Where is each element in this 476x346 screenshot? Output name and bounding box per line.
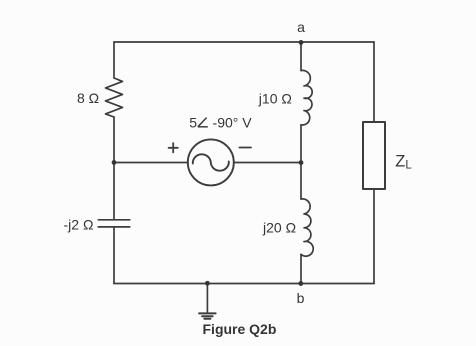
wire middle branch between coil and junction <box>300 125 302 199</box>
ground bar1 <box>199 312 216 314</box>
node a junction dot <box>299 40 304 45</box>
wire right branch lower <box>373 189 375 284</box>
wire middle horizontal left <box>114 162 188 164</box>
ground stem <box>206 284 208 313</box>
node junction dot left mid <box>112 160 117 165</box>
inductor L1 j10ohm <box>301 70 312 125</box>
inductor L2 j20ohm <box>301 199 313 256</box>
ground bar3 <box>204 318 210 320</box>
svg-text:5 -90° V: 5 -90° V <box>189 115 252 131</box>
source V1 sine wave <box>193 154 229 170</box>
svg-text:b: b <box>297 290 305 306</box>
wire right branch upper <box>373 42 375 122</box>
capacitor C -j2ohm plates <box>98 219 130 221</box>
wire bottom rail <box>114 283 374 285</box>
angle symbol in source label <box>198 118 208 127</box>
node junction dot right mid <box>299 160 304 165</box>
wire left bottom segment <box>113 227 115 284</box>
svg-text:8 Ω: 8 Ω <box>77 90 99 106</box>
wire top rail <box>114 41 374 43</box>
wire middle branch from node a <box>300 42 302 71</box>
svg-text:j20 Ω: j20 Ω <box>262 219 296 235</box>
svg-text:Figure Q2b: Figure Q2b <box>203 321 277 337</box>
svg-text:ZL: ZL <box>395 152 412 171</box>
load ZL box <box>363 122 385 189</box>
wire left middle segment <box>113 117 115 220</box>
svg-text:a: a <box>297 19 305 35</box>
wire middle branch bottom <box>300 254 302 283</box>
node b junction dot <box>298 281 303 286</box>
minus sign of source <box>239 147 251 149</box>
wire left top segment <box>113 42 115 78</box>
wire middle horizontal right <box>234 162 301 164</box>
svg-text:-j2 Ω: -j2 Ω <box>64 217 94 233</box>
ground bar2 <box>202 315 213 317</box>
svg-text:j10 Ω: j10 Ω <box>258 90 292 106</box>
resistor R 8ohm zigzag <box>106 78 123 117</box>
plus sign of source <box>169 143 178 152</box>
ground junction dot <box>205 281 210 286</box>
source V1 circle <box>188 139 234 185</box>
